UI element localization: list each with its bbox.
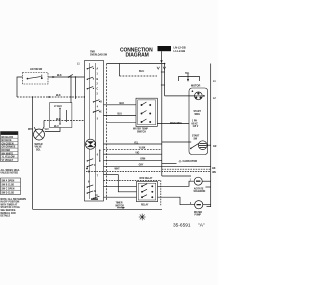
svg-text:YL YELLOW: YL YELLOW — [2, 157, 16, 159]
svg-text:VLV: VLV — [45, 129, 50, 131]
svg-text:BLK: BLK — [57, 75, 62, 77]
svg-text:WTR: WTR — [28, 129, 33, 131]
svg-text:TMR: TMR — [90, 52, 95, 54]
svg-text:VT VIOLET: VT VIOLET — [2, 160, 14, 162]
svg-text:G: G — [94, 191, 96, 193]
svg-text:GN GREEN: GN GREEN — [2, 143, 14, 145]
svg-text:MTR RELAY: MTR RELAY — [140, 177, 153, 180]
svg-text:60 HZ: 60 HZ — [192, 123, 199, 125]
svg-text:ALL WIRES 18GA: ALL WIRES 18GA — [1, 169, 20, 172]
svg-text:WH WHITE: WH WHITE — [2, 153, 14, 155]
svg-text:SOLENOID: SOLENOID — [194, 191, 206, 193]
svg-text:TBL: TBL — [185, 73, 190, 75]
svg-text:MOTOR: MOTOR — [191, 85, 200, 88]
svg-text:1 PH: 1 PH — [192, 121, 197, 123]
svg-text:AGITATE: AGITATE — [194, 187, 204, 190]
svg-text:DIAGRAM: DIAGRAM — [126, 53, 149, 59]
svg-text:BU BLUE: BU BLUE — [2, 140, 12, 142]
svg-text:MAIN WDG: MAIN WDG — [170, 122, 182, 125]
svg-text:UNLESS NOTED: UNLESS NOTED — [1, 173, 19, 175]
svg-text:COLOR CODE: COLOR CODE — [2, 133, 17, 135]
svg-text:BLU: BLU — [54, 126, 59, 128]
svg-text:SEE SERVICE: SEE SERVICE — [1, 210, 16, 212]
svg-text:WH: WH — [212, 172, 216, 174]
svg-text:IN OFF POSITION: IN OFF POSITION — [1, 202, 20, 204]
svg-text:VIO: VIO — [135, 153, 139, 155]
svg-text:WATER TEMP: WATER TEMP — [133, 128, 148, 131]
svg-text:TIMER: TIMER — [116, 203, 123, 205]
svg-text:START: START — [194, 110, 202, 113]
svg-text:-| |- CAPACITOR: -| |- CAPACITOR — [178, 160, 197, 163]
svg-text:GR: GR — [213, 146, 217, 148]
svg-text:115 V: 115 V — [193, 126, 199, 128]
svg-text:DETAILS: DETAILS — [1, 215, 11, 218]
svg-text:BK: BK — [212, 168, 216, 170]
svg-text:MOTOR: MOTOR — [116, 205, 125, 207]
svg-text:35-6591: 35-6591 — [173, 223, 191, 229]
svg-text:SW A OPEN: SW A OPEN — [2, 179, 15, 182]
svg-text:WATER: WATER — [35, 143, 43, 146]
svg-text:BK BLACK: BK BLACK — [2, 136, 14, 139]
svg-text:LID SW SW: LID SW SW — [30, 69, 43, 71]
svg-text:SW D CLSD: SW D CLSD — [2, 193, 15, 195]
svg-text:YL/BK: YL/BK — [139, 148, 146, 150]
svg-text:WATER: WATER — [194, 211, 202, 214]
svg-text:OVERLOAD SW: OVERLOAD SW — [90, 53, 108, 56]
svg-text:ORN: ORN — [140, 159, 145, 161]
svg-text:PUMP: PUMP — [195, 215, 202, 217]
svg-text:OR ORANGE: OR ORANGE — [2, 146, 16, 149]
svg-text:BLU: BLU — [118, 114, 123, 116]
svg-text:LT BLU: LT BLU — [54, 106, 62, 108]
svg-text:NOTE: ALL SW SHOWN: NOTE: ALL SW SHOWN — [1, 198, 27, 201]
svg-text:"A": "A" — [198, 223, 205, 229]
svg-text:START OF CYCLE: START OF CYCLE — [1, 206, 21, 209]
svg-text:BLU: BLU — [139, 70, 144, 73]
svg-text:YEL: YEL — [134, 142, 139, 144]
svg-text:WITH TIMER AT: WITH TIMER AT — [1, 203, 18, 206]
svg-text:RD RED: RD RED — [2, 150, 11, 152]
svg-text:L1-L2-GB: L1-L2-GB — [174, 49, 186, 53]
svg-text:SOL: SOL — [36, 149, 41, 151]
svg-text:SW B CLSD: SW B CLSD — [2, 185, 15, 187]
svg-text:BLK: BLK — [120, 103, 125, 105]
svg-text:START: START — [192, 135, 200, 138]
svg-text:VALVE: VALVE — [35, 146, 43, 149]
svg-text:SWITCH: SWITCH — [137, 131, 146, 133]
svg-text:RELAY: RELAY — [141, 204, 149, 207]
svg-text:WDG: WDG — [195, 114, 201, 116]
svg-text:WHT: WHT — [115, 169, 121, 171]
svg-text:MANUAL FOR: MANUAL FOR — [1, 212, 16, 215]
svg-text:GRY: GRY — [139, 165, 144, 167]
svg-text:BLK: BLK — [56, 95, 61, 97]
svg-text:SW C OPEN: SW C OPEN — [2, 189, 15, 191]
svg-text:BLK: BLK — [56, 119, 61, 121]
